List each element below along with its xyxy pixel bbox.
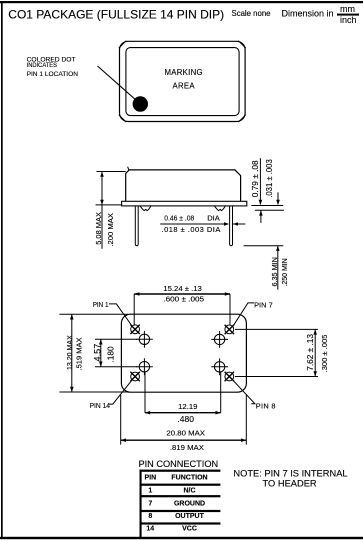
side view right pin — [230, 206, 233, 246]
svg-text:PIN 14: PIN 14 — [90, 401, 110, 410]
dim 0.79 up arrow head — [259, 210, 263, 215]
svg-text:7.62 ± .13: 7.62 ± .13 — [305, 334, 315, 371]
dim 0.46 fraction bar with right arrow — [160, 223, 228, 225]
dim 5.08 down arrow — [100, 200, 104, 205]
standoff circle top-left — [136, 331, 153, 348]
dim 7.62 top tick — [235, 328, 318, 330]
svg-text:PIN 8: PIN 8 — [256, 401, 276, 410]
units fraction bar — [337, 14, 359, 16]
pin 7 circle — [225, 325, 234, 334]
svg-text:Dimension in: Dimension in — [282, 9, 334, 19]
dim 0.79 fraction bar vertical with arrow — [259, 158, 261, 204]
pin end reference line — [244, 245, 284, 247]
top view corner chamfer marks — [119, 41, 126, 48]
dim 15.24 line — [134, 293, 230, 295]
standoff circle bottom-left — [136, 358, 153, 375]
pin 7 leader — [233, 303, 254, 326]
side view base plate — [122, 201, 247, 206]
svg-text:PIN: PIN — [144, 474, 156, 481]
dim 12.19 line — [145, 412, 221, 414]
svg-text:GROUND: GROUND — [174, 500, 205, 507]
dim 13.20 vertical line — [71, 314, 73, 392]
dim 13.20 bottom tick — [59, 391, 128, 393]
dim 5.08 top tick — [97, 171, 126, 173]
svg-text:mm: mm — [340, 4, 355, 14]
dim 12.19 right arrow — [216, 411, 221, 415]
standoff circle bottom-right — [211, 358, 228, 375]
table line 4 — [140, 510, 221, 512]
page border left — [1, 1, 3, 539]
svg-text:.519 MAX: .519 MAX — [75, 337, 84, 370]
dim 12.19 extension right — [220, 372, 222, 413]
svg-text:.180: .180 — [105, 346, 115, 362]
dim 6.35 up arrow — [276, 246, 280, 251]
svg-text:OUTPUT: OUTPUT — [175, 513, 205, 520]
dim 20.80 right arrow — [241, 438, 246, 442]
dim 0.79 extension line lower — [255, 209, 284, 211]
svg-text:Scale none: Scale none — [232, 9, 271, 18]
dim 12.19 left arrow — [145, 411, 150, 415]
dim 13.20 top tick — [59, 313, 128, 315]
dim 0.79 second down arrow head — [276, 200, 280, 205]
dim 5.08 up arrow — [100, 172, 104, 177]
pin 14 circle — [130, 372, 139, 381]
dim 4.57 top tick — [95, 338, 137, 340]
bottom view body outline — [121, 314, 246, 392]
svg-text:.018 ± .003 DIA: .018 ± .003 DIA — [162, 225, 221, 234]
svg-text:.250 MIN: .250 MIN — [280, 258, 289, 286]
table line 1 — [140, 470, 221, 472]
page border top — [0, 1, 363, 3]
dim 12.19 extension left — [144, 372, 146, 413]
dim 0.46 arrow right — [224, 222, 229, 226]
svg-text:N/C: N/C — [183, 488, 195, 495]
dim 15.24 right arrow — [225, 292, 230, 296]
dim 6.35 vertical line — [277, 246, 279, 290]
dim 20.80 extension left — [120, 395, 122, 445]
table left border — [140, 470, 142, 537]
dim 0.79 extension line upper — [251, 205, 283, 207]
standoff circle top-right — [211, 331, 228, 348]
dim 7.62 vertical line — [314, 329, 316, 376]
dim 13.20 down arrow — [70, 387, 74, 392]
svg-text:4.57: 4.57 — [93, 344, 103, 362]
svg-text:.300 ± .005: .300 ± .005 — [320, 335, 329, 373]
svg-text:inch: inch — [340, 15, 357, 25]
dim 0.79 second down arrow line — [277, 192, 279, 204]
svg-text:13.20 MAX: 13.20 MAX — [65, 335, 74, 370]
svg-text:15.24 ± .13: 15.24 ± .13 — [163, 284, 202, 293]
svg-text:TO HEADER: TO HEADER — [263, 478, 317, 488]
page border bottom — [0, 537, 363, 539]
side view left standoff bump — [140, 206, 151, 211]
svg-text:DIA: DIA — [207, 214, 220, 223]
top view outer case outline — [120, 41, 246, 121]
dim 0.46 tail right of pin — [233, 223, 245, 225]
svg-text:.200 MAX: .200 MAX — [106, 213, 115, 247]
dim 15.24 extension line left — [133, 294, 135, 325]
svg-text:PIN CONNECTION: PIN CONNECTION — [139, 459, 219, 469]
pin 8 leader — [233, 380, 255, 404]
table line 5 — [140, 522, 221, 524]
svg-text:.031 ± .003: .031 ± .003 — [265, 159, 274, 198]
dim 5.08 bottom tick — [96, 204, 122, 206]
pin 1 circle — [130, 325, 139, 334]
dim 0.79 up arrow line — [260, 211, 262, 223]
side view left pin — [135, 206, 138, 246]
side view can body — [126, 170, 241, 201]
dim 13.20 up arrow — [70, 314, 74, 319]
dim 4.57 vertical line — [100, 339, 102, 366]
svg-text:VCC: VCC — [182, 526, 197, 533]
dim 7.62 bottom tick — [235, 376, 318, 378]
svg-text:INDICATES: INDICATES — [27, 62, 57, 69]
top view inner lid outline — [126, 48, 239, 116]
table line 2 — [140, 484, 221, 486]
dim 7.62 down arrow — [313, 371, 317, 376]
can corner overshoot tick — [128, 167, 129, 171]
pin 1 colored dot — [133, 97, 147, 111]
leader line to colored dot — [98, 66, 138, 101]
svg-text:.480: .480 — [177, 415, 194, 424]
pin 14 leader — [109, 380, 132, 404]
dim 4.57 down arrow — [99, 362, 103, 367]
svg-text:14: 14 — [146, 526, 154, 533]
dim 15.24 extension line right — [229, 294, 231, 325]
svg-text:PIN 1 LOCATION: PIN 1 LOCATION — [27, 71, 79, 78]
pin 1 leader — [109, 304, 132, 326]
svg-text:12.19: 12.19 — [178, 402, 197, 411]
svg-text:0.46 ± .08: 0.46 ± .08 — [164, 214, 194, 223]
dim 4.57 bottom tick — [95, 366, 137, 368]
svg-text:CO1 PACKAGE (FULLSIZE 14 PIN D: CO1 PACKAGE (FULLSIZE 14 PIN DIP) — [8, 7, 224, 21]
svg-text:PIN 1: PIN 1 — [93, 300, 109, 309]
table line 3 — [140, 495, 221, 497]
svg-text:PIN 7: PIN 7 — [254, 301, 273, 310]
svg-text:6.35 MIN: 6.35 MIN — [270, 257, 279, 286]
dim 20.80 extension right — [245, 395, 247, 445]
svg-text:NOTE: PIN 7 IS INTERNAL: NOTE: PIN 7 IS INTERNAL — [233, 468, 347, 478]
dim 4.57 up arrow — [99, 339, 103, 344]
svg-text:.819 MAX: .819 MAX — [170, 443, 204, 452]
svg-text:8: 8 — [148, 513, 152, 520]
svg-text:AREA: AREA — [172, 82, 195, 91]
dim 20.80 left arrow — [121, 438, 126, 442]
svg-text:1: 1 — [148, 488, 152, 495]
side view right standoff bump — [214, 206, 225, 211]
dim 20.80 line — [121, 439, 247, 441]
svg-text:20.80 MAX: 20.80 MAX — [166, 429, 205, 438]
dim 0.46 arrow left — [233, 222, 238, 226]
dim 15.24 left arrow — [134, 292, 139, 296]
svg-text:5.08 MAX: 5.08 MAX — [94, 212, 103, 245]
dim 0.79 down arrow on bar — [259, 200, 263, 205]
dim 7.62 up arrow — [313, 329, 317, 334]
svg-text:.600 ± .005: .600 ± .005 — [163, 295, 204, 304]
svg-text:0.79 ± .08: 0.79 ± .08 — [250, 160, 260, 197]
pin 8 circle — [225, 372, 234, 381]
svg-text:7: 7 — [148, 500, 152, 507]
dim 5.08 vertical line — [101, 172, 103, 249]
svg-text:FUNCTION: FUNCTION — [171, 474, 207, 481]
svg-text:MARKING: MARKING — [164, 68, 203, 77]
